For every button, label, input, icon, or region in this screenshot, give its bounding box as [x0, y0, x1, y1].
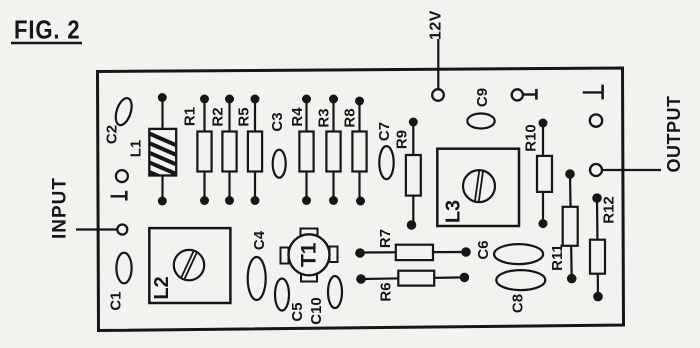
node OUTPUT terminal	[590, 164, 602, 176]
svg-text:INPUT: INPUT	[50, 177, 71, 239]
svg-text:R5: R5	[236, 107, 253, 126]
svg-text:T1: T1	[298, 242, 321, 267]
resistor R6	[356, 271, 469, 302]
svg-text:12V: 12V	[427, 10, 444, 40]
resistor R8	[342, 97, 367, 206]
svg-text:C8: C8	[510, 294, 527, 313]
svg-text:C2: C2	[104, 125, 121, 144]
svg-text:R10: R10	[523, 124, 540, 152]
svg-text:C3: C3	[269, 112, 286, 131]
transistor T1	[281, 229, 338, 282]
wire INPUT lead	[76, 228, 117, 230]
capacitor C9	[467, 88, 494, 129]
svg-text:C9: C9	[474, 88, 491, 107]
hole top-left	[116, 170, 128, 182]
ground symbol left	[111, 191, 127, 201]
svg-text:R7: R7	[377, 229, 394, 248]
capacitor C4	[248, 230, 268, 300]
resistor R4	[289, 95, 314, 206]
svg-text:C4: C4	[251, 230, 268, 250]
svg-text:R1: R1	[182, 107, 199, 126]
svg-text:C7: C7	[376, 122, 393, 141]
resistor R9	[394, 118, 421, 230]
svg-text:C10: C10	[308, 297, 325, 325]
svg-text:L1: L1	[128, 140, 145, 158]
node 12V terminal	[432, 89, 444, 101]
hole with ground top-middle	[512, 89, 537, 101]
svg-text:R6: R6	[378, 282, 395, 301]
svg-text:R9: R9	[394, 130, 411, 149]
trimmer inductor L3	[437, 149, 519, 226]
capacitor C3	[269, 112, 286, 177]
svg-text:C1: C1	[108, 291, 125, 310]
svg-text:R12: R12	[601, 196, 618, 224]
resistor R1	[182, 95, 212, 206]
svg-text:OUTPUT: OUTPUT	[664, 96, 684, 173]
resistor R7	[355, 229, 471, 260]
ground symbol top-right	[583, 85, 603, 100]
svg-text:R4: R4	[289, 107, 306, 127]
board outline	[98, 68, 624, 331]
svg-text:R2: R2	[210, 107, 227, 126]
svg-text:L3: L3	[443, 200, 465, 223]
svg-text:R8: R8	[342, 108, 359, 127]
resistor R5	[236, 95, 263, 206]
svg-text:C5: C5	[289, 302, 306, 321]
capacitor C6	[475, 240, 543, 264]
svg-text:C6: C6	[475, 240, 492, 259]
capacitor C2	[104, 96, 135, 144]
capacitor C7	[376, 122, 393, 179]
inductor L1	[128, 93, 179, 206]
capacitor C10	[308, 276, 342, 325]
svg-text:R11: R11	[549, 244, 566, 271]
resistor R3	[316, 95, 341, 206]
capacitor C5	[275, 279, 306, 322]
node INPUT terminal	[117, 225, 127, 235]
title FIG. 2	[11, 16, 82, 45]
resistor R11	[549, 169, 578, 283]
resistor R12	[590, 193, 618, 301]
wire 12V lead	[437, 39, 439, 89]
capacitor C8	[496, 270, 545, 313]
svg-text:FIG. 2: FIG. 2	[14, 16, 80, 45]
hole right	[590, 114, 602, 126]
resistor R10	[523, 119, 553, 229]
wire OUTPUT lead	[602, 169, 661, 171]
trimmer inductor L2	[149, 228, 230, 303]
capacitor C1	[108, 253, 132, 311]
svg-text:R3: R3	[316, 108, 333, 127]
svg-text:L2: L2	[151, 276, 173, 299]
resistor R2	[210, 95, 237, 206]
